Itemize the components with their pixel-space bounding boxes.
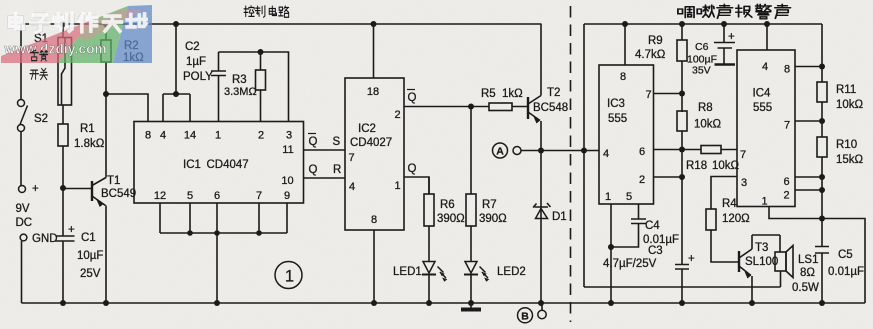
- svg-text:4: 4: [349, 181, 355, 193]
- svg-text:1: 1: [215, 130, 221, 142]
- svg-text:4: 4: [603, 148, 609, 160]
- svg-text:10kΩ: 10kΩ: [712, 160, 740, 172]
- svg-text:0.5W: 0.5W: [792, 282, 819, 294]
- svg-text:9V: 9V: [16, 203, 30, 215]
- svg-text:Q: Q: [309, 136, 318, 148]
- svg-text:+: +: [688, 253, 695, 265]
- svg-text:C3: C3: [648, 245, 663, 257]
- svg-text:8Ω: 8Ω: [800, 267, 815, 279]
- svg-text:Q: Q: [309, 164, 318, 176]
- svg-text:BC548: BC548: [533, 102, 568, 114]
- svg-text:4.7kΩ: 4.7kΩ: [635, 49, 666, 61]
- svg-text:8: 8: [784, 64, 790, 76]
- svg-text:LED2: LED2: [497, 266, 526, 278]
- svg-text:18: 18: [367, 86, 379, 98]
- svg-text:390Ω: 390Ω: [479, 213, 507, 225]
- svg-text:+: +: [728, 31, 735, 43]
- svg-text:D1: D1: [552, 211, 567, 223]
- svg-text:CD4047: CD4047: [207, 159, 249, 171]
- svg-text:R11: R11: [836, 84, 856, 96]
- svg-text:IC3: IC3: [607, 98, 625, 110]
- svg-text:14: 14: [184, 130, 196, 142]
- svg-text:LED1: LED1: [393, 266, 422, 278]
- svg-text:GND: GND: [32, 233, 58, 245]
- svg-text:B: B: [521, 311, 529, 323]
- svg-text:4: 4: [160, 130, 166, 142]
- svg-text:10µF: 10µF: [77, 250, 103, 262]
- svg-text:555: 555: [753, 102, 772, 114]
- svg-text:4: 4: [762, 61, 768, 73]
- svg-text:8: 8: [620, 71, 626, 83]
- svg-text:9: 9: [284, 190, 290, 202]
- svg-text:R5: R5: [481, 88, 496, 100]
- svg-text:IC4: IC4: [753, 88, 772, 100]
- svg-text:R4: R4: [722, 198, 737, 210]
- svg-text:35V: 35V: [692, 65, 711, 77]
- svg-text:0.01µF: 0.01µF: [828, 266, 864, 278]
- svg-text:3.3MΩ: 3.3MΩ: [224, 86, 257, 98]
- svg-text:C1: C1: [81, 232, 96, 244]
- svg-text:15kΩ: 15kΩ: [836, 154, 864, 166]
- svg-text:A: A: [496, 146, 504, 158]
- svg-text:C2: C2: [185, 41, 200, 53]
- svg-text:1: 1: [394, 180, 400, 192]
- svg-text:R10: R10: [836, 139, 857, 151]
- svg-text:S: S: [333, 136, 341, 148]
- svg-text:6: 6: [783, 176, 789, 188]
- svg-text:T2: T2: [547, 87, 560, 99]
- svg-text:POLY: POLY: [183, 71, 213, 83]
- svg-text:1: 1: [761, 196, 767, 208]
- svg-text:+: +: [68, 224, 75, 236]
- svg-text:120Ω: 120Ω: [722, 213, 750, 225]
- svg-text:www.dzdiy.com: www.dzdiy.com: [4, 42, 107, 57]
- svg-text:10: 10: [281, 175, 293, 187]
- svg-text:3: 3: [741, 177, 747, 189]
- svg-text:5: 5: [626, 191, 632, 203]
- svg-text:1.8kΩ: 1.8kΩ: [74, 138, 105, 150]
- svg-text:8: 8: [371, 214, 377, 226]
- svg-text:1: 1: [605, 191, 611, 203]
- svg-text:2: 2: [258, 130, 264, 142]
- svg-text:R3: R3: [232, 74, 247, 86]
- svg-text:R: R: [333, 164, 341, 176]
- svg-text:R9: R9: [648, 35, 663, 47]
- svg-text:Q: Q: [408, 92, 417, 104]
- svg-text:R6: R6: [440, 199, 455, 211]
- svg-text:7: 7: [256, 190, 262, 202]
- svg-text:R8: R8: [698, 102, 713, 114]
- svg-text:Q: Q: [408, 163, 417, 175]
- svg-text:10kΩ: 10kΩ: [694, 119, 722, 131]
- svg-text:555: 555: [608, 113, 627, 125]
- svg-text:2: 2: [394, 109, 400, 121]
- svg-text:7: 7: [645, 89, 651, 101]
- svg-text:6: 6: [214, 190, 220, 202]
- svg-text:12: 12: [154, 190, 166, 202]
- svg-text:R1: R1: [80, 123, 95, 135]
- svg-text:7: 7: [740, 149, 746, 161]
- svg-text:5: 5: [187, 190, 193, 202]
- svg-text:390Ω: 390Ω: [437, 213, 465, 225]
- svg-text:8: 8: [145, 130, 151, 142]
- svg-text:3: 3: [286, 130, 292, 142]
- svg-text:10kΩ: 10kΩ: [836, 99, 864, 111]
- svg-text:1: 1: [285, 268, 294, 286]
- svg-text:R7: R7: [482, 199, 497, 211]
- svg-text:IC2: IC2: [358, 123, 376, 135]
- svg-text:11: 11: [282, 144, 293, 156]
- svg-text:T3: T3: [755, 242, 768, 254]
- svg-text:C6: C6: [695, 41, 709, 53]
- svg-text:C5: C5: [838, 249, 853, 261]
- svg-text:2: 2: [639, 174, 645, 186]
- svg-text:7: 7: [784, 120, 790, 132]
- svg-text:1kΩ: 1kΩ: [502, 88, 523, 100]
- svg-text:LS1: LS1: [798, 254, 818, 266]
- svg-text:DC: DC: [16, 217, 33, 229]
- svg-text:4.7µF/25V: 4.7µF/25V: [603, 258, 657, 270]
- svg-text:T1: T1: [107, 175, 120, 187]
- svg-text:+: +: [32, 183, 39, 195]
- svg-text:SL100: SL100: [745, 256, 778, 268]
- svg-text:1µF: 1µF: [186, 56, 206, 68]
- svg-text:R18: R18: [686, 160, 707, 172]
- svg-text:CD4027: CD4027: [350, 137, 392, 149]
- svg-text:25V: 25V: [80, 268, 101, 280]
- svg-text:BC549: BC549: [101, 188, 136, 200]
- svg-text:C4: C4: [645, 220, 660, 232]
- svg-text:6: 6: [639, 146, 645, 158]
- svg-text:2: 2: [783, 190, 789, 202]
- svg-text:IC1: IC1: [183, 159, 201, 171]
- svg-text:7: 7: [348, 152, 354, 164]
- svg-text:S2: S2: [34, 113, 48, 125]
